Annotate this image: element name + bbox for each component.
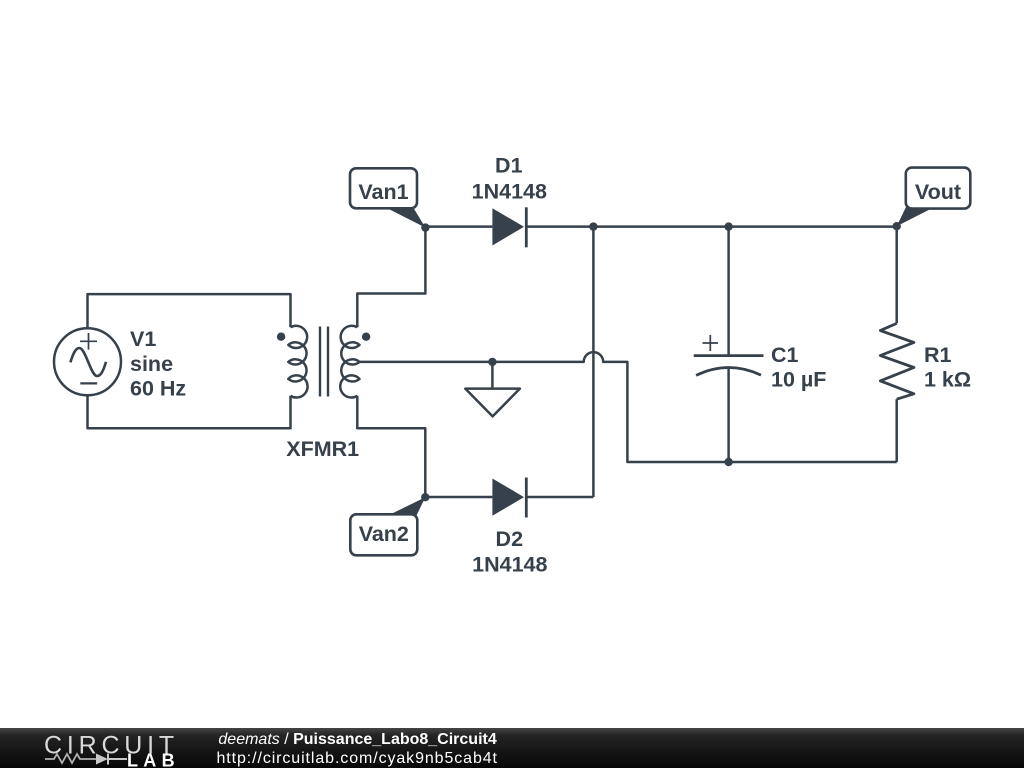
- wire: [88, 294, 291, 328]
- svg-text:1 kΩ: 1 kΩ: [924, 368, 971, 392]
- wire: [359, 352, 897, 462]
- ground: [465, 358, 520, 417]
- CircuitLab logo: [44, 732, 180, 771]
- wire: [729, 225, 897, 228]
- label V1 value: [130, 327, 186, 400]
- wire: [425, 225, 492, 228]
- voltage source V1: [54, 328, 121, 395]
- diode D1: [492, 207, 526, 247]
- svg-text:D2: D2: [496, 527, 524, 551]
- svg-text:Van1: Van1: [358, 180, 408, 204]
- svg-text:XFMR1: XFMR1: [286, 437, 359, 461]
- svg-text:http://circuitlab.com/cyak9nb5: http://circuitlab.com/cyak9nb5cab4t: [217, 750, 498, 767]
- svg-text:1N4148: 1N4148: [472, 553, 547, 577]
- svg-text:R1: R1: [924, 343, 952, 367]
- node Vout: [893, 168, 971, 231]
- node Van2: [350, 493, 429, 555]
- wire: [526, 225, 593, 228]
- node junction dot: [724, 222, 732, 230]
- svg-text:10 µF: 10 µF: [771, 368, 826, 392]
- wire: [526, 496, 593, 499]
- wire: [357, 228, 425, 328]
- wire: [425, 496, 492, 499]
- svg-text:D1: D1: [495, 154, 523, 178]
- label R1: [924, 343, 971, 392]
- label D2: [472, 527, 547, 577]
- label C1: [771, 343, 826, 392]
- diode D2: [492, 478, 526, 518]
- wire: [593, 225, 728, 228]
- node junction dot: [724, 458, 732, 466]
- svg-text:deemats / Puissance_Labo8_Circ: deemats / Puissance_Labo8_Circuit4: [218, 731, 496, 748]
- wire: [592, 227, 595, 497]
- resistor R1: [880, 227, 914, 462]
- svg-text:1N4148: 1N4148: [472, 179, 547, 203]
- footer bar: [0, 728, 1024, 768]
- wire: [357, 396, 425, 497]
- svg-text:C1: C1: [771, 343, 799, 367]
- svg-text:Vout: Vout: [915, 180, 961, 204]
- svg-text:Van2: Van2: [359, 522, 409, 546]
- node junction dot: [589, 222, 597, 230]
- svg-text:sine: sine: [130, 352, 173, 376]
- svg-text:60 Hz: 60 Hz: [130, 376, 186, 400]
- label D1: [472, 154, 547, 204]
- svg-text:V1: V1: [130, 327, 156, 351]
- wire: [88, 395, 291, 428]
- svg-text:LAB: LAB: [127, 751, 180, 768]
- capacitor C1: [694, 227, 764, 462]
- node Van1: [350, 168, 430, 232]
- transformer XFMR1: [277, 326, 370, 398]
